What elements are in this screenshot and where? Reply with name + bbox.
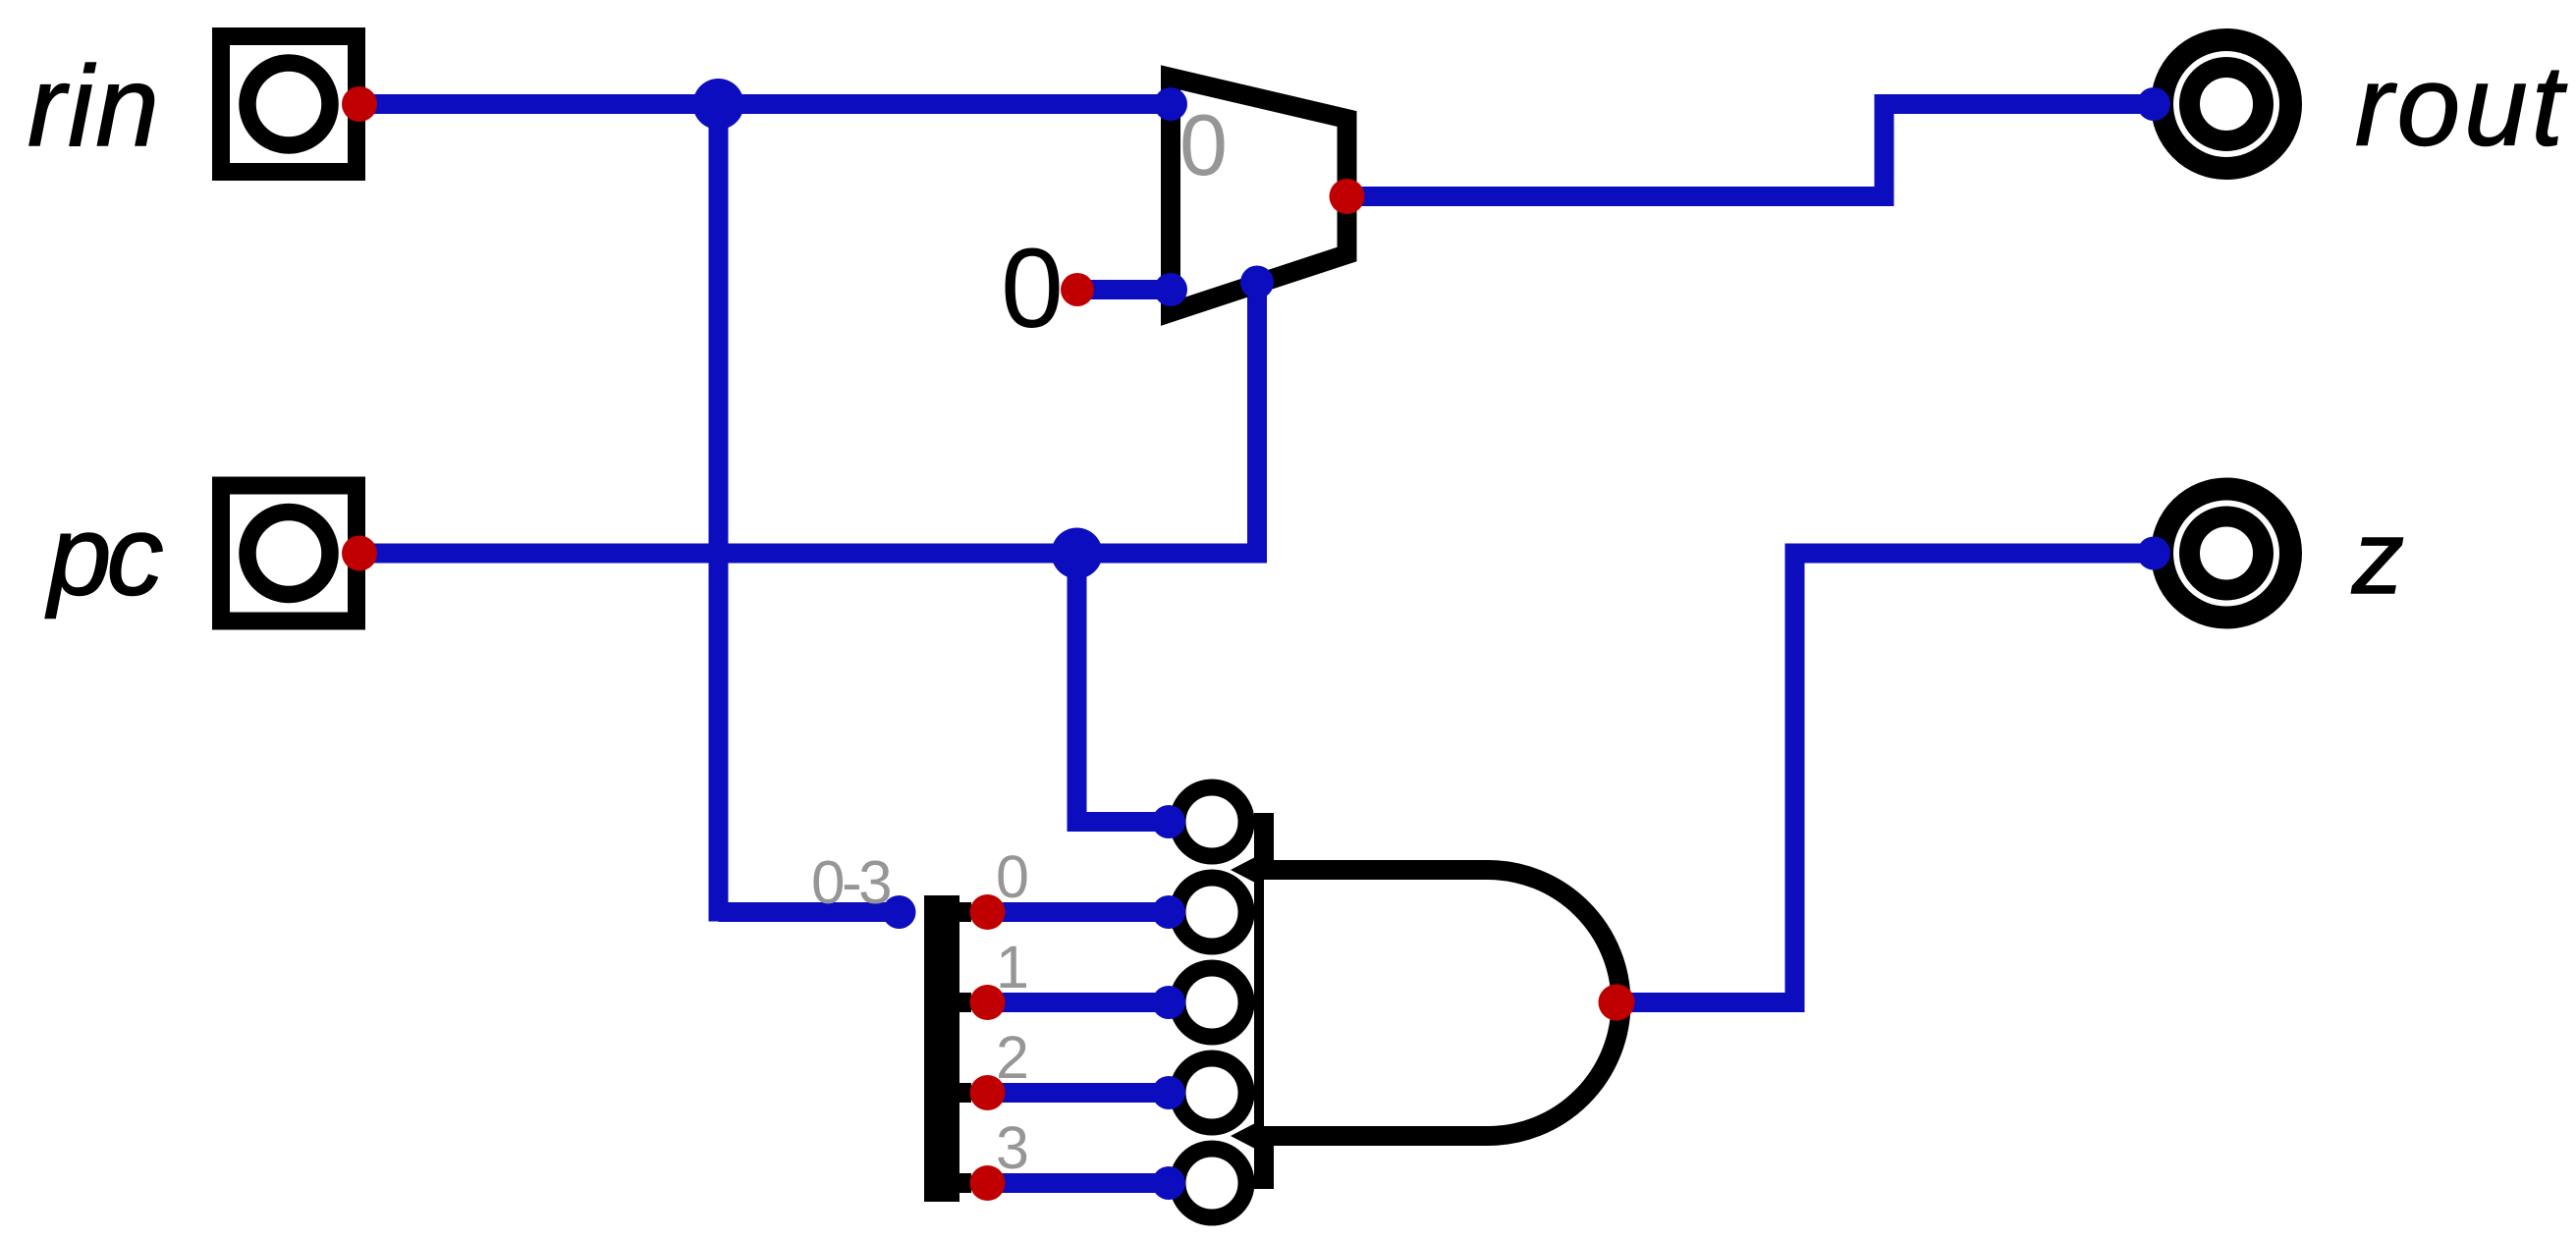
splitter input dot [883, 895, 916, 929]
constant 0 port dot [1061, 273, 1094, 306]
wire junction B down [1068, 554, 1087, 823]
input pin pc [221, 486, 356, 621]
wire to splitter input [719, 902, 901, 922]
svg-text:0: 0 [996, 843, 1029, 910]
output pin rout [2163, 40, 2291, 169]
splitter port dot 1 [970, 985, 1006, 1020]
wire to z [1785, 544, 2155, 564]
svg-text:0-3: 0-3 [811, 849, 890, 917]
wire riser up to rout row [1875, 104, 1894, 206]
svg-text:rout: rout [2355, 42, 2568, 170]
endpoint dot AND input 2 [1152, 895, 1185, 929]
mux top input dot [1154, 87, 1187, 121]
input pin rin [221, 36, 356, 172]
mux select endpoint dot [1240, 266, 1274, 299]
wire select riser up to mux [1247, 283, 1267, 564]
port dot pc [342, 536, 377, 571]
endpoint dot AND input 1 [1152, 805, 1185, 838]
mux output port dot [1330, 179, 1365, 214]
svg-text:0: 0 [1179, 96, 1228, 193]
AND inverted input bubble 5 [1178, 1149, 1246, 1217]
junction A on rin wire [693, 79, 744, 130]
z endpoint dot [2137, 537, 2170, 570]
svg-text:0: 0 [1001, 226, 1064, 351]
wire junction A down to splitter row [709, 104, 729, 922]
svg-text:rin: rin [27, 42, 161, 170]
svg-text:z: z [2351, 500, 2404, 616]
wire pc to mux select riser [359, 544, 1257, 564]
wire constant to mux input 2 [1077, 280, 1171, 299]
AND inverted input bubble 1 [1178, 787, 1246, 856]
rout endpoint dot [2137, 87, 2170, 121]
AND inverted input bubble 3 [1178, 968, 1246, 1037]
wire to rout [1875, 94, 2155, 114]
AND gate U1 body [1231, 813, 1621, 1189]
output pin z [2163, 489, 2291, 618]
wire splitter 1 to AND input 3 [988, 993, 1170, 1012]
port dot rin [342, 86, 377, 122]
AND output port dot [1599, 985, 1635, 1021]
endpoint dot AND input 3 [1152, 986, 1185, 1019]
junction B on pc wire [1052, 528, 1103, 579]
wire splitter 2 to AND input 4 [988, 1083, 1170, 1103]
wire splitter 3 to AND input 5 [988, 1173, 1170, 1193]
mux input 2 endpoint dot [1154, 273, 1187, 306]
svg-text:3: 3 [996, 1114, 1029, 1181]
splitter port dot 2 [970, 1075, 1006, 1110]
splitter port dot 0 [970, 894, 1006, 930]
multiplexer MUX1 [1171, 78, 1347, 312]
wire rin to mux [359, 94, 1171, 114]
wire mux output right [1347, 187, 1885, 206]
splitter port dot 3 [970, 1165, 1006, 1201]
wire riser up to z row [1785, 554, 1805, 1013]
wire AND output right [1617, 993, 1795, 1012]
svg-text:pc: pc [45, 492, 163, 620]
AND inverted input bubble 2 [1178, 878, 1246, 946]
endpoint dot AND input 4 [1152, 1076, 1185, 1109]
wire splitter 0 to AND input 2 [988, 902, 1170, 922]
endpoint dot AND input 5 [1152, 1166, 1185, 1200]
wire to AND input 1 [1068, 812, 1170, 832]
splitter 0-3 [924, 895, 971, 1202]
AND inverted input bubble 4 [1178, 1058, 1246, 1127]
svg-text:2: 2 [996, 1024, 1029, 1091]
svg-text:1: 1 [996, 934, 1029, 1000]
